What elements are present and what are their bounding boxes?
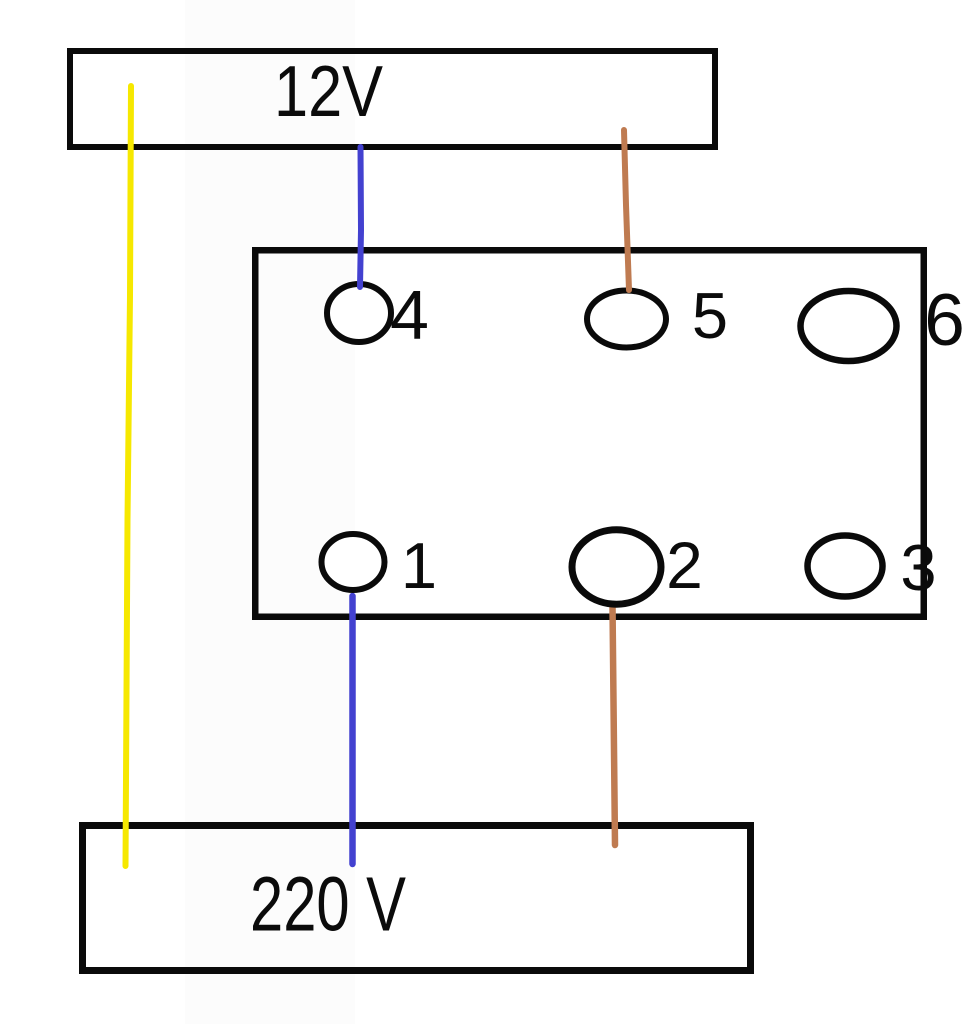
wire blue terminal 1 to V2 [349,596,356,864]
svg-text:4: 4 [390,276,429,354]
wire brown V1 to terminal 5 [624,130,629,290]
svg-text:3: 3 [900,531,936,604]
terminal 2 [572,530,661,604]
terminal 6 [801,291,897,361]
svg-text:1: 1 [401,529,437,602]
svg-text:2: 2 [666,528,703,602]
wire yellow unconnected [126,86,132,866]
terminal 3 [808,536,883,597]
terminal 5 [587,291,666,348]
wire brown terminal 2 to V2 [613,605,616,845]
wire blue V1 to terminal 4 [360,147,361,287]
svg-text:5: 5 [692,279,728,352]
source V2 220V [83,826,751,971]
terminal 4 [327,284,391,342]
svg-text:12V: 12V [274,52,383,132]
terminal 1 [322,534,385,590]
source V1 12V [70,51,715,147]
svg-text:6: 6 [924,280,965,361]
svg-text:220 V: 220 V [250,862,406,948]
terminal block TB1 [255,250,924,617]
